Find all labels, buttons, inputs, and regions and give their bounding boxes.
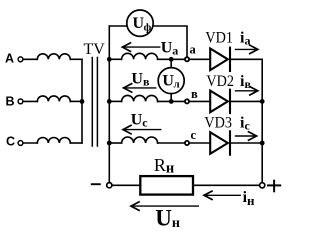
current ia arrow [236,45,258,53]
voltmeter Ul circle [158,68,184,94]
Ua voltage arrow [122,43,159,51]
svg-text:VD3: VD3 [204,115,232,132]
primary winding L1 (phase A) [37,54,70,60]
Uc voltage arrow [123,125,161,133]
wire resistor to plus [193,184,260,186]
svg-text:с: с [191,128,197,142]
junction secondary b [107,99,112,104]
wire minus to resistor [112,184,140,186]
terminal B circle [18,99,23,104]
wire node a to VD1 [189,58,209,60]
wire A terminal to primary winding [23,58,37,60]
wire node c to VD3 [189,142,209,144]
Un voltage arrow [131,202,198,210]
wire node b to VD2 [189,100,209,102]
wire Ul bottom [170,94,172,102]
wire Ul top [170,59,172,68]
minus sign [92,183,100,185]
terminal A circle [18,57,23,62]
terminal C circle [18,141,23,146]
svg-text:С: С [6,135,15,149]
current ic arrow [236,132,257,140]
svg-text:TV: TV [84,41,106,58]
wire VD1 to bus [231,58,262,60]
cathode bus wire [261,59,263,183]
node a circle [185,57,189,61]
wire secondary a to node a [158,58,185,60]
secondary winding a [122,53,158,59]
primary winding L3 (phase C) [37,138,70,144]
wire primary C to star line [70,142,82,144]
secondary winding c [122,137,158,143]
resistor Rn [140,176,193,195]
current ib arrow [236,87,258,95]
svg-text:А: А [5,52,14,66]
node c circle [185,141,189,145]
wire star line to secondary winding c [109,142,121,144]
wire primary B to star line [70,100,82,102]
wire secondary b to node b [158,100,185,102]
junction secondary a [107,57,112,62]
secondary star wire (to minus terminal) [108,26,110,182]
wire B terminal to primary winding [23,100,37,102]
svg-text:в: в [191,87,198,101]
Ub voltage arrow [124,84,156,92]
wire primary A to star line [70,58,82,60]
wire Uf meter left [109,25,127,27]
wire star line to secondary winding a [109,58,121,60]
wire VD3 to bus [231,142,262,144]
diode VD1 [210,48,230,71]
junction primary star B [80,99,85,104]
junction bus c [260,141,265,146]
primary winding L2 (phase B) [37,96,70,102]
svg-text:а: а [190,42,197,56]
svg-text:VD1: VD1 [205,29,233,46]
plus sign [268,181,280,192]
minus terminal circle [107,183,112,188]
primary star wire [81,59,83,143]
current in arrow [204,191,240,199]
junction Ul bottom [169,99,174,104]
diode VD2 [210,90,230,113]
junction bus b [260,99,265,104]
svg-text:В: В [6,94,15,108]
wire secondary c to node c [158,142,185,144]
voltmeter Uf circle [127,10,153,36]
secondary winding b [122,95,158,101]
junction secondary c [107,141,112,146]
wire VD2 to bus [231,100,262,102]
node b circle [185,99,189,103]
wire Uf meter right [153,26,187,57]
wire star line to secondary winding b [109,100,121,102]
transformer core line 1 [91,58,93,147]
diode VD3 [210,131,230,154]
svg-text:VD2: VD2 [206,73,234,90]
wire C terminal to primary winding [23,142,37,144]
transformer core line 2 [96,58,98,147]
junction Ul top [169,57,174,62]
plus terminal circle [260,183,265,188]
